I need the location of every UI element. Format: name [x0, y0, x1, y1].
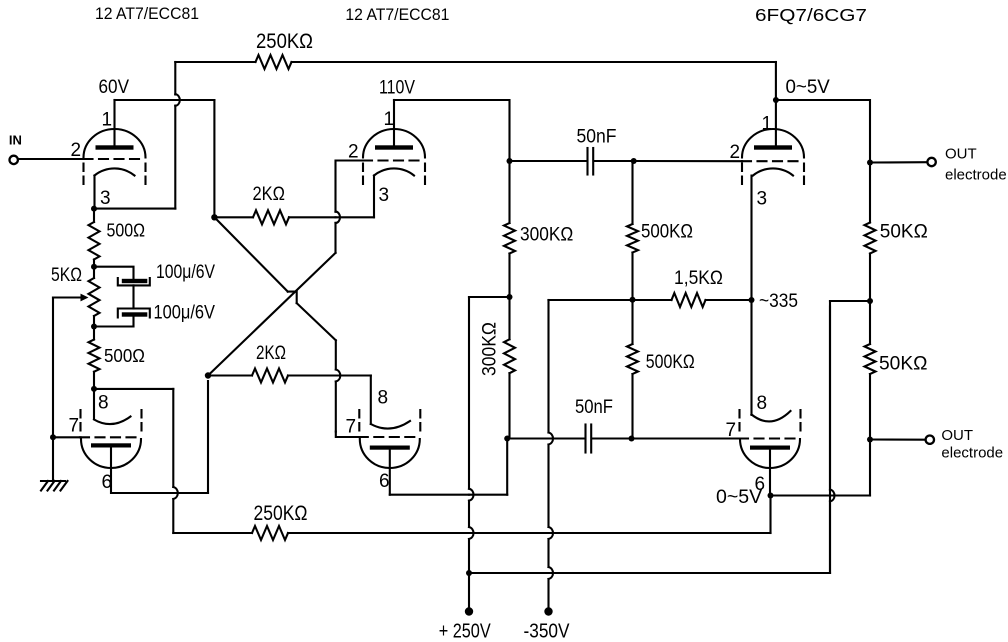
- wire 500K-1 bottom: [631, 253, 633, 300]
- wire hop: top-left vertical over 60V wire: [175, 94, 180, 106]
- wire diagonal D1 (V2a grid to node B): [208, 253, 336, 376]
- wire 300K-2 to V2b plate node: [508, 373, 510, 438]
- wire junction to 500ohm lower: [93, 327, 95, 340]
- svg-text:6: 6: [379, 471, 390, 492]
- svg-text:7: 7: [726, 420, 737, 441]
- svg-text:1: 1: [384, 109, 395, 130]
- svg-text:500KΩ: 500KΩ: [641, 222, 693, 243]
- svg-text:1: 1: [762, 114, 773, 135]
- svg-text:IN: IN: [9, 133, 22, 148]
- capacitor C2 100u/6V tray plate: [118, 309, 150, 318]
- junction V1b cathode node: [91, 386, 97, 392]
- resistor 1.5K: [672, 293, 706, 307]
- wire 50K mid to +250 branch: [830, 300, 870, 302]
- triode V1a cathode: [95, 168, 135, 175]
- wire 500K-2 top: [631, 300, 633, 344]
- wire 50K-2 to V3b plate: [869, 440, 871, 496]
- wire cap branch bottom: [94, 317, 134, 327]
- wire OUT2: [870, 438, 925, 440]
- wire V2b plate to 300K-2 node: [390, 494, 469, 496]
- svg-text:250KΩ: 250KΩ: [254, 502, 308, 525]
- triode V3b grid (dashed): [739, 437, 801, 439]
- wire rail A left part: [173, 532, 252, 534]
- triode V2a plate (anode) bar: [375, 145, 413, 149]
- triode V2b plate (anode) bar: [370, 446, 410, 450]
- triode V3a envelope dome: [742, 129, 804, 158]
- wire diagonal D2 hop jog: [288, 292, 297, 304]
- wire 50K-2 bottom: [869, 374, 871, 440]
- wire 0~5V node to 50K riser: [776, 100, 870, 163]
- wire pot to lower junction: [93, 316, 95, 327]
- wire 50K-1 bottom: [869, 254, 871, 302]
- pin 8 lead V2b (cathode): [370, 376, 372, 425]
- svg-text:3: 3: [379, 185, 390, 206]
- wire wiper to ground: [52, 298, 54, 481]
- svg-text:7: 7: [69, 416, 80, 437]
- svg-text:electrode: electrode: [945, 167, 1007, 184]
- svg-text:OUT: OUT: [945, 146, 977, 163]
- capacitor C1 100u/6V tray plate: [118, 278, 150, 285]
- wire top rail left segment: [174, 106, 176, 209]
- resistor 2K (lower): [252, 369, 288, 383]
- wire V1a plate to node A (60V line): [115, 99, 215, 101]
- svg-text:300KΩ: 300KΩ: [480, 322, 501, 376]
- svg-text:electrode: electrode: [941, 445, 1003, 462]
- svg-text:~335: ~335: [759, 291, 798, 312]
- wire diagonal D2 part 2 (to V2b grid drop): [297, 303, 336, 340]
- wire node A drop: [213, 100, 215, 217]
- junction node A (V1a plate / 2K): [211, 214, 217, 220]
- wire -350V riser: [547, 300, 549, 433]
- wire 500K-2 bottom: [631, 374, 633, 439]
- junction 50K mid node: [867, 298, 873, 304]
- ground (chassis) symbol: [41, 481, 68, 491]
- wire top rail horizontal right part: [292, 61, 776, 63]
- svg-text:0~5V: 0~5V: [716, 487, 763, 508]
- triode V1a plate (anode) bar: [96, 145, 134, 149]
- triode V1a envelope dashed sides: [82, 164, 84, 189]
- pin 1 lead V3a (plate): [775, 100, 777, 145]
- triode V2b envelope dashed sides: [358, 410, 360, 436]
- svg-text:2: 2: [348, 142, 359, 163]
- wire +250V riser: [468, 297, 470, 489]
- wire top rail vertical to 250K rail: [174, 62, 176, 95]
- triode V3b envelope dome: [740, 439, 800, 468]
- pot wiper arrow line: [53, 296, 82, 298]
- resistor 50K (upper): [865, 223, 876, 254]
- terminal +250V: [465, 607, 473, 615]
- junction pot/cap2/500 node: [91, 324, 97, 330]
- svg-text:2: 2: [71, 140, 82, 161]
- wire +250 branch riser: [829, 301, 831, 490]
- resistor 250K (top): [256, 55, 292, 69]
- pin 3 lead V3a (cathode): [750, 176, 752, 301]
- svg-text:+ 250V: + 250V: [439, 621, 492, 642]
- wire between caps: [132, 285, 134, 308]
- triode V2b grid (dashed): [359, 436, 421, 438]
- svg-text:100μ/6V: 100μ/6V: [156, 262, 215, 283]
- triode V2a envelope dashed sides: [362, 164, 364, 189]
- wire cap branch top: [94, 267, 134, 280]
- wire V2b plate node to C4: [507, 437, 548, 439]
- potentiometer 5K body: [89, 278, 100, 316]
- triode V3b plate (anode) bar: [750, 446, 790, 450]
- wire riser to +250V terminal: [468, 573, 470, 612]
- wire 500K mid to 1.5K: [633, 299, 672, 301]
- wire plate node to C3: [510, 160, 587, 162]
- wire V2b grid entry: [336, 432, 359, 438]
- triode V3a envelope dashed sides: [741, 164, 743, 189]
- pin 1 lead V2a (plate): [393, 100, 395, 145]
- wire top rail horizontal left part: [175, 61, 255, 63]
- svg-text:-350V: -350V: [524, 621, 571, 642]
- triode V2b cathode: [371, 421, 410, 429]
- svg-text:500Ω: 500Ω: [107, 221, 146, 241]
- OUT1 terminal circle: [927, 158, 935, 166]
- wire rail B corner up: [829, 307, 831, 574]
- svg-text:2: 2: [730, 142, 741, 163]
- wire top rail corner down: [775, 62, 777, 100]
- wire IN to V1a grid: [18, 158, 84, 160]
- wire 500K-1 top: [631, 161, 633, 224]
- svg-text:8: 8: [757, 393, 768, 414]
- pin 6 lead V2b (plate): [389, 450, 391, 495]
- resistor 50K (lower): [865, 344, 876, 374]
- terminal -350V: [544, 607, 552, 615]
- resistor 300K (lower, rotated label): [508, 297, 510, 339]
- triode V2a envelope dome: [363, 129, 425, 158]
- svg-text:50KΩ: 50KΩ: [880, 222, 928, 243]
- IN terminal circle: [10, 156, 18, 164]
- capacitor C4 50nF plates: [584, 425, 586, 453]
- capacitor C1 100u/6V plate+: [122, 279, 148, 283]
- svg-text:250KΩ: 250KΩ: [256, 30, 313, 53]
- wire rail A right end riser: [769, 496, 771, 534]
- svg-text:8: 8: [378, 388, 389, 409]
- resistor 300K (upper): [504, 223, 515, 253]
- junction ground line / grid: [50, 434, 56, 440]
- resistor 500K (upper): [627, 224, 638, 253]
- wire node B to 2K lower: [208, 374, 252, 376]
- pin 2 lead V2a vertical: [336, 161, 364, 212]
- wire 500ohm to junction: [93, 260, 95, 267]
- capacitor C2 100u/6V plate+: [122, 312, 148, 316]
- pin 3 lead V2a (cathode): [373, 176, 375, 218]
- junction 0~5V node: [773, 97, 779, 103]
- wire grid V1b to ground line: [53, 436, 81, 438]
- junction V2a plate node: [507, 158, 513, 164]
- pin 1 lead V1a (plate): [113, 100, 115, 145]
- svg-text:0~5V: 0~5V: [786, 77, 831, 98]
- svg-text:2KΩ: 2KΩ: [253, 184, 286, 205]
- triode V2a cathode: [374, 168, 414, 175]
- triode V3a plate (anode) bar: [754, 145, 792, 149]
- wire node A to 2K: [214, 216, 253, 218]
- wire plate node to 300K-1: [508, 161, 510, 223]
- wire cathode chain to V3b: [750, 300, 752, 415]
- triode V3a grid (dashed): [742, 160, 804, 162]
- wire 500K-2 node to V3b grid: [632, 437, 740, 439]
- wire junction down to pot: [93, 267, 95, 278]
- wire V2b grid drop vertical: [335, 340, 337, 369]
- svg-text:3: 3: [757, 189, 768, 210]
- svg-text:1: 1: [102, 110, 113, 131]
- junction C3 / 500K-1 node: [631, 158, 637, 164]
- wire +250 node to V1 riser: [469, 296, 510, 298]
- capacitor C3 50nF plates: [586, 148, 588, 175]
- svg-text:6FQ7/6CG7: 6FQ7/6CG7: [755, 5, 867, 25]
- svg-text:500Ω: 500Ω: [104, 346, 145, 366]
- wire C4 to 500K-2 node: [592, 437, 631, 439]
- wire 2K lower to V2b cathode: [288, 374, 336, 376]
- OUT2 terminal circle: [926, 436, 934, 444]
- wire 300K-1 to +250 node: [508, 254, 510, 298]
- triode V2a grid (dashed): [363, 159, 425, 161]
- resistor 2K (upper): [253, 210, 289, 224]
- junction node B (V1b plate / 2K): [205, 372, 211, 378]
- wire rail A right part: [288, 532, 469, 534]
- svg-text:2KΩ: 2KΩ: [256, 343, 286, 364]
- junction 500/5K/cap node: [91, 264, 97, 270]
- svg-text:8: 8: [98, 393, 109, 414]
- svg-text:50nF: 50nF: [577, 127, 617, 148]
- wire -350 riser top corner: [547, 299, 549, 301]
- wire pin3 node to top-rail vertical: [94, 208, 175, 210]
- junction V3b plate node: [768, 493, 774, 499]
- pot wiper arrowhead: [81, 294, 89, 302]
- triode V1b envelope dashed sides: [79, 410, 81, 436]
- wire 500ohm lower to pin8 node: [93, 372, 95, 389]
- wire to V3a grid: [634, 160, 742, 162]
- junction 500K mid node: [630, 297, 636, 303]
- junction OUT2 node: [867, 437, 873, 443]
- triode V3b envelope dashed sides: [738, 410, 740, 436]
- wire cathode node to 500ohm: [93, 209, 95, 222]
- wire rail A left riser: [94, 388, 173, 390]
- triode V1a grid (dashed): [84, 158, 146, 160]
- svg-text:50KΩ: 50KΩ: [879, 354, 928, 375]
- wire rail B: [469, 572, 549, 574]
- triode V2b envelope dome: [360, 439, 420, 468]
- svg-text:110V: 110V: [379, 78, 415, 99]
- triode V1a envelope dome: [84, 129, 146, 158]
- resistor 250K (bottom): [252, 526, 288, 540]
- wire OUT1: [870, 161, 927, 163]
- svg-text:12 AT7/ECC81: 12 AT7/ECC81: [345, 5, 449, 24]
- svg-text:100μ/6V: 100μ/6V: [154, 303, 216, 324]
- wire C3 to 500K node: [594, 160, 633, 162]
- wire 2K to V2a cathode turn: [289, 216, 336, 218]
- junction V1a cathode node: [91, 206, 97, 212]
- junction 500K-2 / C4 node: [629, 436, 635, 442]
- wire 50K-1 top: [869, 163, 871, 223]
- wire diagonal D2 part 1 (node A down): [214, 217, 287, 291]
- junction +250V feed node: [507, 294, 513, 300]
- resistor 500 ohm (upper): [89, 222, 100, 259]
- triode V3b cathode: [752, 411, 791, 421]
- junction ~335 node: [749, 297, 755, 303]
- wire 50K-2 top: [869, 301, 871, 344]
- triode V3a cathode: [753, 168, 793, 175]
- wire 1.5K to cathode node: [706, 299, 752, 301]
- resistor 500K (lower): [627, 344, 638, 374]
- triode V1b cathode: [94, 417, 131, 425]
- pin 3 lead V1a (cathode): [93, 176, 95, 209]
- svg-text:5KΩ: 5KΩ: [51, 265, 82, 286]
- svg-text:500KΩ: 500KΩ: [646, 352, 695, 373]
- resistor 500 ohm (lower): [89, 340, 100, 372]
- svg-text:OUT: OUT: [941, 427, 973, 444]
- svg-text:12 AT7/ECC81: 12 AT7/ECC81: [95, 4, 199, 23]
- pin 8 lead V1b (cathode): [93, 389, 95, 419]
- wire V2a plate to 300K node: [394, 100, 510, 161]
- junction OUT1 node: [867, 160, 873, 166]
- triode V1b plate (anode) bar: [91, 443, 131, 447]
- svg-text:300KΩ: 300KΩ: [520, 225, 573, 246]
- wire V2 riser to 500K mid: [549, 299, 633, 301]
- junction riser / bottom rail B: [466, 570, 472, 576]
- pin 6 lead V1b (plate): [111, 448, 208, 494]
- wire plate V1b up to node B: [207, 381, 209, 493]
- svg-text:3: 3: [100, 188, 111, 209]
- triode V1b envelope dome: [81, 439, 141, 468]
- svg-text:7: 7: [346, 417, 357, 438]
- pin 6 lead V3b (plate): [769, 450, 771, 496]
- svg-text:60V: 60V: [99, 77, 130, 98]
- svg-text:50nF: 50nF: [575, 397, 613, 418]
- triode V1b grid (dashed): [80, 436, 142, 438]
- svg-text:1,5KΩ: 1,5KΩ: [674, 268, 723, 289]
- junction V2b plate / coupling node: [504, 436, 510, 442]
